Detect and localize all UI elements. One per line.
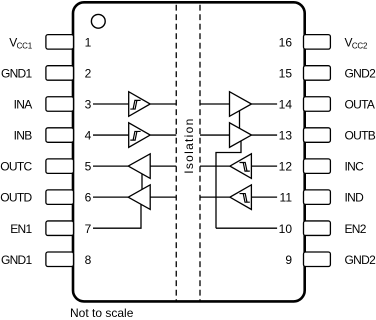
svg-text:7: 7 (85, 222, 92, 236)
svg-text:13: 13 (279, 129, 293, 143)
svg-text:VCC1: VCC1 (9, 35, 32, 50)
svg-text:5: 5 (85, 160, 92, 174)
svg-text:11: 11 (280, 191, 293, 205)
svg-text:GND2: GND2 (345, 67, 376, 81)
svg-text:OUTA: OUTA (345, 98, 375, 112)
svg-text:OUTD: OUTD (0, 191, 32, 205)
svg-text:8: 8 (85, 253, 92, 267)
svg-text:9: 9 (285, 253, 292, 267)
svg-text:EN1: EN1 (10, 222, 32, 236)
svg-text:4: 4 (85, 129, 92, 143)
svg-text:10: 10 (279, 222, 293, 236)
svg-text:Isolation: Isolation (182, 117, 196, 173)
svg-text:VCC2: VCC2 (345, 35, 368, 50)
svg-text:EN2: EN2 (345, 222, 367, 236)
svg-text:6: 6 (85, 191, 92, 205)
svg-text:16: 16 (279, 35, 293, 49)
svg-text:2: 2 (85, 67, 92, 81)
svg-text:GND1: GND1 (1, 67, 33, 81)
svg-text:INA: INA (14, 98, 33, 112)
svg-text:12: 12 (279, 160, 293, 174)
svg-text:INC: INC (345, 160, 365, 174)
svg-text:OUTC: OUTC (0, 160, 32, 174)
svg-text:GND1: GND1 (1, 253, 33, 267)
svg-text:Not to scale: Not to scale (70, 306, 134, 320)
svg-text:1: 1 (85, 35, 92, 49)
svg-text:14: 14 (279, 98, 293, 112)
svg-text:15: 15 (279, 67, 293, 81)
svg-text:GND2: GND2 (345, 253, 376, 267)
svg-text:IND: IND (345, 191, 365, 205)
svg-text:INB: INB (14, 129, 33, 143)
svg-text:OUTB: OUTB (345, 129, 376, 143)
svg-text:3: 3 (85, 98, 92, 112)
